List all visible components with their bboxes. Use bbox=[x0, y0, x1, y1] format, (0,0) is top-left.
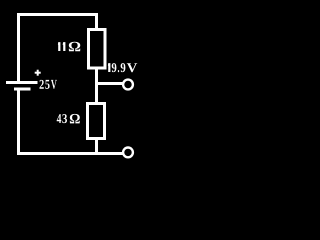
terminal circle top bbox=[123, 80, 133, 90]
label 19.9V bbox=[108, 63, 137, 72]
wire: left vertical upper bbox=[17, 13, 20, 81]
label 11 ohm bbox=[58, 42, 80, 52]
wire: vertical between R1 and R2 bbox=[95, 68, 98, 103]
wire: right vertical top bbox=[95, 13, 98, 29]
wire: top horizontal bbox=[17, 13, 98, 16]
wire: vertical below R2 bbox=[95, 138, 98, 153]
label 25V bbox=[40, 80, 57, 89]
resistor R1 11 ohm box bbox=[89, 30, 106, 69]
wire: branch to top terminal bbox=[97, 82, 123, 85]
battery plus sign bbox=[35, 70, 41, 76]
resistor R2 43 ohm box bbox=[88, 104, 105, 139]
battery V1 positive plate bbox=[6, 81, 38, 84]
wire: bottom horizontal bbox=[17, 152, 123, 155]
wire: left vertical lower bbox=[17, 91, 20, 156]
label 43 ohm bbox=[57, 114, 80, 124]
terminal circle bottom bbox=[123, 148, 133, 158]
battery V1 negative plate bbox=[14, 88, 31, 91]
